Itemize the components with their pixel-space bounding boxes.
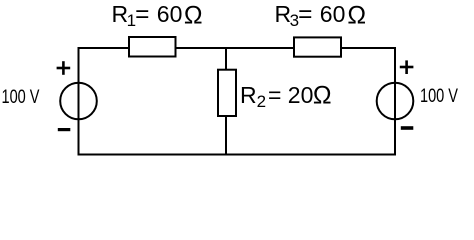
resistor R1: [129, 37, 176, 57]
wire right: [394, 47, 396, 156]
svg-text:R2 = 20Ω: R2 = 20Ω: [240, 82, 332, 112]
resistor R2: [218, 70, 236, 116]
polarity minus V2: [401, 126, 414, 130]
svg-text:R3= 60Ω: R3= 60Ω: [275, 1, 367, 30]
wire top: [78, 47, 397, 49]
polarity plus V1: [57, 61, 71, 75]
polarity minus V1: [58, 128, 71, 131]
svg-text:100 V: 100 V: [2, 87, 40, 108]
svg-text:R1= 60Ω: R1= 60Ω: [112, 1, 203, 30]
polarity plus V2: [400, 60, 414, 74]
wire bottom: [78, 154, 397, 156]
svg-text:100 V: 100 V: [420, 86, 458, 107]
voltage source V2: [377, 83, 414, 120]
resistor R3: [294, 37, 341, 56]
wire middle: [225, 47, 227, 156]
wire left: [78, 47, 80, 156]
voltage source V1: [60, 83, 97, 120]
